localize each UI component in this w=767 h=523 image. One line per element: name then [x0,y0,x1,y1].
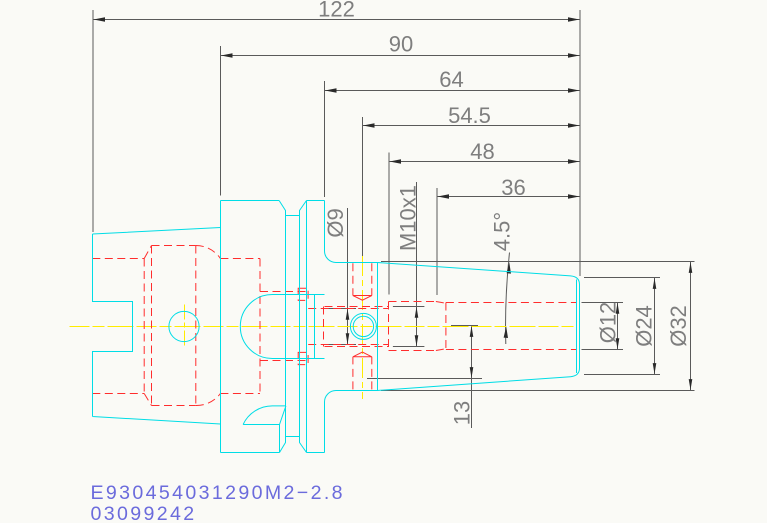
dimension D24 extension lines [584,277,660,279]
svg-text:M10x1: M10x1 [396,185,421,251]
svg-text:90: 90 [389,32,413,57]
flange bottom edge [221,452,325,454]
dimension D24 [632,278,657,375]
hidden cavity outline [144,246,196,406]
svg-text:Ø12: Ø12 [596,302,621,344]
dimension 36 [437,175,580,200]
dimension 122 [93,0,580,22]
svg-text:48: 48 [470,139,494,164]
hidden bore bottom line [92,393,260,395]
extension line left of 36 [436,188,438,295]
coolant tube circles [350,313,376,339]
hidden key rect bottom [298,352,308,364]
drill point top [353,296,372,301]
dimension 48 [389,139,580,164]
drive slot bottom [243,406,286,453]
body outline: HSK shank [93,228,221,425]
hidden bore step vertical [259,259,261,394]
hidden bore top line [92,258,260,260]
svg-text:122: 122 [318,0,355,22]
dimension D32 [666,262,692,391]
dimension 90 [221,32,581,58]
hidden thread major lines [324,307,389,347]
svg-text:13: 13 [450,401,475,425]
hidden cavity corner arcs [196,246,221,406]
extension line left of 48 [388,153,390,295]
svg-text:4.5°: 4.5° [490,212,515,251]
extension line right shared [579,10,581,276]
extension line left of 64 [324,81,326,197]
dimension 4.5 degrees leader [490,212,515,344]
svg-text:03099242: 03099242 [91,503,197,523]
svg-text:54.5: 54.5 [448,103,491,128]
svg-text:Ø9: Ø9 [323,208,348,237]
taper start edge [377,263,379,391]
dimension M10x1 [393,182,425,347]
hidden key rect top [298,288,308,300]
main centerline [70,326,578,328]
extension line left of 122 [92,10,94,232]
svg-text:36: 36 [501,175,525,200]
nose end face [571,276,580,377]
centerline of shank hole [184,305,186,349]
flange internal verticals [286,201,315,453]
hidden D12 bore lines [446,303,577,350]
extension line left of 54.5 [362,117,364,258]
hidden radial hole bottom [353,357,372,390]
dimension D32 extension lines [381,261,695,263]
flange top edge [221,200,325,202]
v-groove bottom [280,437,307,453]
dimension 13 [367,326,482,429]
drill point bottom [353,352,372,357]
svg-text:E930454031290M2−2.8: E930454031290M2−2.8 [91,482,345,504]
dimension 54.5 [363,103,581,128]
hidden step lines at dome [260,292,308,361]
flange left face [220,201,222,453]
flange right face [325,201,337,453]
dimension 64 [325,67,581,93]
hidden radial hole top [353,263,372,295]
v-groove top [279,201,306,216]
svg-text:Ø24: Ø24 [632,305,657,347]
dome head [240,295,324,359]
dimension D12 [596,302,621,350]
dimension D9 [323,208,356,345]
hidden thread minor lines [308,309,388,345]
svg-text:64: 64 [439,67,463,92]
centerline of radial holes [362,256,364,399]
dimension D12 extension lines [582,302,624,304]
extension line left of 90 [220,46,222,196]
shank side hole circle [169,311,199,341]
svg-text:Ø32: Ø32 [666,305,691,347]
hidden counterbore outline [389,302,446,351]
cylinder top and taper [336,263,571,391]
